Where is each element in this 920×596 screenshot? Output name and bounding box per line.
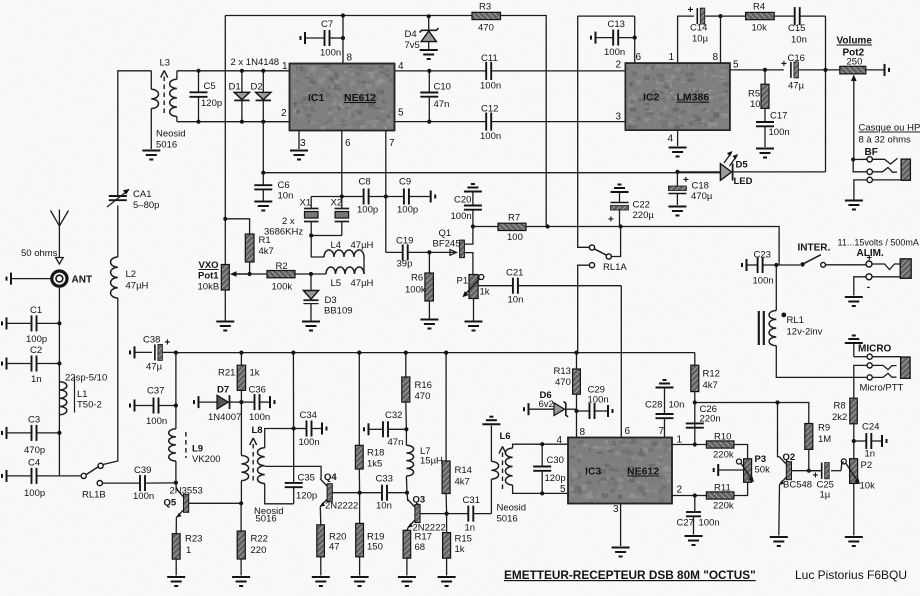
label C25 bbox=[817, 480, 834, 491]
node D6/C29/pin8 bbox=[574, 409, 578, 413]
IC1 pin 7 bbox=[389, 138, 395, 149]
wire pin6 stub bbox=[341, 131, 343, 197]
label Pot1 bbox=[198, 271, 219, 282]
IC1 pin 2 bbox=[281, 108, 287, 119]
node C3/bus bbox=[57, 431, 61, 435]
ground at P3 wiper bbox=[714, 464, 744, 476]
wire IC2 pin5 rail bbox=[730, 69, 784, 71]
jack BF bbox=[851, 157, 910, 200]
node Q4 base/R18/R19 bbox=[358, 491, 362, 495]
label L4 value bbox=[351, 240, 374, 251]
label C16 bbox=[788, 53, 805, 64]
node Q1 gate/R6 bbox=[427, 250, 431, 254]
node C32/L7 bbox=[404, 427, 408, 431]
node D1 top bbox=[240, 69, 244, 73]
capacitor C23 bbox=[742, 257, 800, 273]
label R23 value bbox=[186, 545, 191, 556]
label Pot1 value bbox=[198, 282, 220, 293]
op-amp IC2 LM386 bbox=[625, 63, 730, 130]
node C6 rail bbox=[261, 171, 265, 175]
label L1 bbox=[77, 389, 88, 400]
label C1 bbox=[30, 305, 42, 316]
transformer L3 primary bbox=[151, 71, 158, 149]
label RL1 value bbox=[787, 327, 823, 338]
node C5 top bbox=[196, 69, 200, 73]
resistor R9 bbox=[805, 424, 813, 471]
node C34/L8 bbox=[292, 426, 296, 430]
ground under pin3 bbox=[290, 151, 308, 160]
label C20 value bbox=[451, 211, 472, 222]
label R3 value bbox=[478, 23, 494, 34]
label C8 bbox=[359, 177, 371, 188]
label R5 value bbox=[750, 99, 761, 110]
label 8 a 32 ohms bbox=[859, 135, 912, 146]
node R16/rail bbox=[404, 351, 408, 355]
capacitor C31 bbox=[468, 506, 491, 522]
node C18 tap bbox=[675, 170, 679, 174]
node C13/pin6 bbox=[633, 36, 637, 40]
relay coil RL1 bbox=[759, 311, 786, 346]
potentiometer Pot1 bbox=[221, 265, 251, 291]
label C9 value bbox=[397, 205, 418, 216]
label R9 bbox=[818, 423, 830, 434]
resistor R7 bbox=[498, 223, 526, 230]
label R21 bbox=[218, 368, 235, 379]
ground under IC3 pin3 bbox=[612, 548, 630, 557]
wire Q4 base bbox=[332, 492, 381, 494]
wire L4 to L5 bbox=[363, 257, 365, 274]
wire CA1 to L3 bbox=[118, 71, 152, 190]
label R7 bbox=[508, 213, 520, 224]
label 50 ohms bbox=[21, 248, 58, 259]
label C38 value bbox=[146, 362, 163, 373]
IC2 pin 2 bbox=[616, 60, 622, 71]
label R21 value bbox=[250, 368, 260, 379]
ground under Pot1 bbox=[216, 322, 234, 331]
label R16 value bbox=[415, 391, 431, 402]
capacitor C24 bbox=[854, 433, 887, 449]
wire rail down to C37 bbox=[175, 353, 177, 429]
wire crystal rail bbox=[311, 196, 430, 198]
label C7 value bbox=[320, 48, 341, 59]
switch INTER bbox=[800, 255, 866, 267]
label R13 value bbox=[555, 377, 571, 388]
resistor R10 bbox=[706, 441, 734, 448]
label D4 bbox=[405, 29, 417, 40]
resistor R3 bbox=[472, 12, 501, 19]
potentiometer P1 bbox=[463, 274, 484, 299]
wire pin8 stub IC3 bbox=[576, 411, 578, 438]
IC2 pin 4 bbox=[668, 134, 674, 145]
label L1 turns bbox=[65, 373, 107, 384]
label L8 Neosid bbox=[254, 506, 284, 517]
node Q2 collector riser bbox=[775, 400, 779, 404]
resistor R20 bbox=[317, 525, 325, 576]
capacitor C18 polarized bbox=[668, 172, 686, 205]
inductor L7 bbox=[406, 429, 413, 492]
label RL1 bbox=[787, 315, 804, 326]
IC3 pin 2 bbox=[677, 485, 683, 496]
IC3 pin 1 bbox=[677, 435, 683, 446]
resistor R1 bbox=[245, 234, 254, 262]
node D4 rail bbox=[427, 14, 431, 18]
label C2 bbox=[30, 345, 42, 356]
label D1 bbox=[229, 82, 241, 93]
crystal X2 bbox=[335, 197, 350, 236]
ground under P2 bbox=[845, 537, 863, 546]
label C32 value bbox=[388, 437, 404, 448]
wire L8 tap to Q4 bbox=[265, 466, 321, 479]
IC2 pin 3 bbox=[616, 112, 622, 123]
node C30 bottom bbox=[540, 491, 544, 495]
ground under R22 bbox=[232, 577, 250, 586]
label C26 bbox=[700, 404, 717, 415]
capacitor C3 bbox=[2, 425, 59, 441]
label 2 x bbox=[282, 216, 295, 227]
label R16 bbox=[415, 380, 432, 391]
label ANT bbox=[72, 275, 93, 286]
wire top rail right of R3 bbox=[501, 16, 547, 227]
label C36 value bbox=[249, 412, 270, 423]
node C23/RL1 bbox=[774, 263, 778, 267]
label X2 bbox=[331, 198, 343, 209]
capacitor C1 bbox=[2, 315, 59, 331]
ground under R17 bbox=[398, 577, 416, 586]
node C38/rail bbox=[174, 351, 178, 355]
label R20 bbox=[329, 532, 346, 543]
node pin7/crystal rail bbox=[384, 194, 388, 198]
capacitor C8 bbox=[364, 186, 369, 207]
node R12/Q2 line bbox=[693, 400, 697, 404]
capacitor C17 bbox=[756, 108, 774, 147]
node pin2/C27 bbox=[693, 493, 697, 497]
transformer L6 primary bbox=[491, 426, 498, 479]
zener diode D4 bbox=[420, 16, 439, 49]
wire R11 to P3 bbox=[734, 482, 748, 495]
ground under C17 bbox=[756, 149, 774, 158]
label Q3 bbox=[413, 495, 426, 506]
label Pot2 value bbox=[847, 57, 863, 68]
label L5 bbox=[331, 278, 342, 289]
label C30 value bbox=[545, 473, 566, 484]
label C17 value bbox=[769, 127, 790, 138]
label INTER. bbox=[798, 243, 831, 254]
wire Pot1 to ground bbox=[224, 290, 226, 321]
IC3 pin 6 bbox=[625, 426, 631, 437]
label L6 5016 bbox=[497, 514, 518, 525]
label C21 bbox=[506, 268, 523, 279]
label D6 value bbox=[539, 399, 554, 410]
capacitor C33 bbox=[382, 485, 407, 501]
label L6 bbox=[500, 431, 511, 442]
label Q5 part bbox=[170, 486, 203, 497]
IC2 pin 5 bbox=[733, 60, 739, 71]
label 3686KHz bbox=[264, 227, 303, 238]
label L1 core bbox=[77, 400, 102, 411]
node Q3 base/R14/R15 bbox=[445, 511, 449, 515]
capacitor C30 bbox=[533, 444, 551, 493]
variable capacitor CA1 bbox=[107, 189, 130, 207]
label L2 bbox=[126, 269, 137, 280]
capacitor C14 polarized bbox=[697, 8, 720, 24]
label D6 bbox=[540, 390, 552, 401]
label C22 value bbox=[633, 210, 655, 221]
node C14/pin8 bbox=[718, 14, 722, 18]
label C29 value bbox=[588, 395, 609, 406]
label C33 value bbox=[376, 501, 392, 512]
label Q2 bbox=[783, 452, 796, 463]
label C38 bbox=[143, 335, 160, 346]
label R14 bbox=[455, 465, 472, 476]
node C37/L9 bbox=[174, 403, 178, 407]
capacitor C22 polarized bbox=[611, 185, 629, 227]
label C3 value bbox=[24, 445, 45, 456]
ground under C6 bbox=[254, 202, 272, 211]
wire Pot1 node to R1 bbox=[225, 219, 249, 234]
resistor R18 bbox=[355, 353, 363, 493]
node C5 bottom bbox=[196, 120, 200, 124]
capacitor C28 bbox=[656, 380, 674, 438]
wire top rail bbox=[225, 15, 472, 17]
node pin6/crystal rail bbox=[340, 194, 344, 198]
label C17 bbox=[770, 111, 787, 122]
wire RL1A lower to bottom rail bbox=[578, 265, 590, 352]
label R11 value bbox=[713, 501, 734, 512]
ground under R15 bbox=[438, 577, 456, 586]
wire Q3 base bbox=[420, 513, 468, 515]
label D5 bbox=[736, 160, 749, 171]
label Q4 bbox=[324, 472, 337, 483]
wire R12 node to pin1 rail bbox=[694, 403, 696, 445]
label R19 bbox=[367, 532, 384, 543]
label C18 bbox=[692, 181, 709, 192]
resistor R11 bbox=[706, 492, 734, 499]
label C19 value bbox=[397, 259, 413, 270]
label C25 plus bbox=[813, 471, 819, 482]
label C23 bbox=[754, 250, 771, 261]
capacitor C36 bbox=[241, 394, 274, 410]
capacitor C39 bbox=[102, 475, 175, 491]
wire R21 node to L8 bbox=[240, 402, 242, 455]
resistor R22 bbox=[237, 503, 245, 575]
label C5 bbox=[204, 81, 216, 92]
led D5 bbox=[677, 151, 825, 181]
label C28 value bbox=[669, 400, 685, 411]
ground above MICRO bbox=[845, 336, 863, 357]
wire C34 node riser bbox=[292, 353, 294, 483]
label C20 bbox=[454, 195, 471, 206]
zener diode D6 bbox=[524, 402, 577, 417]
node C10 bottom bbox=[427, 120, 431, 124]
label L8 5016 bbox=[256, 514, 277, 525]
label Volume bbox=[837, 36, 873, 47]
label C14 plus bbox=[688, 5, 694, 16]
label C32 bbox=[385, 410, 402, 421]
label D7 bbox=[217, 385, 229, 396]
label R4 value bbox=[752, 23, 768, 34]
capacitor C34 bbox=[307, 421, 327, 437]
label P2 bbox=[861, 460, 873, 471]
label LED bbox=[734, 176, 753, 187]
label R23 bbox=[185, 534, 202, 545]
crystal X1 bbox=[304, 197, 319, 236]
wire vcc to RL1A bbox=[578, 16, 590, 248]
label R5 bbox=[748, 89, 760, 100]
IC1 pin 4 bbox=[398, 61, 404, 72]
label Q3 part bbox=[413, 523, 446, 534]
wire X1 X2 bottoms bbox=[311, 235, 342, 237]
label R12 bbox=[703, 369, 720, 380]
capacitor C25 body bbox=[809, 463, 829, 479]
IC1 pin 5 bbox=[398, 108, 404, 119]
ground under D4 bbox=[420, 50, 438, 59]
node C10 top bbox=[427, 69, 431, 73]
transistor Q4 2N2222 bbox=[320, 479, 332, 507]
label Q1 bbox=[439, 228, 452, 239]
label R14 value bbox=[455, 477, 470, 488]
transistor Q3 2N2222 bbox=[407, 493, 420, 528]
transformer L8 core bbox=[250, 438, 257, 481]
label MICRO bbox=[858, 344, 892, 355]
node Q1 drain bbox=[471, 224, 475, 228]
label R12 value bbox=[703, 380, 718, 391]
wire RL1A throw to rail bbox=[611, 228, 620, 257]
wire R4 to C15 bbox=[774, 15, 794, 17]
label C18 value bbox=[691, 191, 713, 202]
capacitor C27 bbox=[686, 496, 701, 535]
node Q5 collector bbox=[174, 481, 178, 485]
ground under C27 bbox=[685, 536, 703, 545]
capacitor C4 bbox=[2, 468, 59, 484]
wire C25 left bbox=[809, 470, 822, 472]
node rail/C22 bbox=[619, 224, 623, 228]
label C38 plus bbox=[165, 338, 171, 349]
label D4 value bbox=[405, 40, 420, 51]
IC1 pin 1 bbox=[282, 61, 288, 72]
node D2 bottom bbox=[261, 120, 265, 124]
capacitor C29 bbox=[577, 403, 613, 419]
jack MICRO bbox=[854, 354, 910, 398]
label L3 bbox=[160, 58, 171, 69]
label C10 bbox=[434, 82, 451, 93]
label L6 Neosid bbox=[497, 503, 527, 514]
label C15 bbox=[788, 23, 805, 34]
ground above L6 bbox=[482, 417, 500, 425]
ground right of Pot2 bbox=[866, 64, 889, 76]
transformer L3 core bbox=[161, 71, 168, 117]
label D7 part bbox=[208, 412, 241, 423]
label C35 value bbox=[296, 491, 317, 502]
node R5 tap bbox=[763, 68, 767, 72]
wire pin7 stub bbox=[385, 131, 387, 253]
label C6 value bbox=[278, 191, 294, 202]
label C34 value bbox=[299, 437, 320, 448]
label C22 plus bbox=[608, 215, 614, 226]
label R10 bbox=[714, 432, 731, 443]
IC3 pin 7 bbox=[659, 426, 665, 437]
label R9 value bbox=[818, 434, 831, 445]
potentiometer Pot2 volume bbox=[840, 66, 866, 159]
transformer L3 secondary bbox=[170, 71, 177, 122]
title EMETTEUR-RECEPTEUR bbox=[504, 568, 756, 582]
ground under R23 bbox=[167, 577, 185, 586]
label R1 value bbox=[259, 246, 274, 257]
label Q5 bbox=[164, 498, 177, 509]
ground right of C9 bbox=[431, 191, 436, 203]
node R13/rail bbox=[574, 351, 578, 355]
wire C21 to IC3 pin6 bbox=[620, 286, 622, 438]
diode D7 1N4007 bbox=[194, 395, 241, 409]
label C11 value bbox=[480, 81, 501, 92]
label L3 Neosid bbox=[156, 129, 186, 140]
capacitor C20 bbox=[464, 184, 482, 227]
wire R7 rail left bbox=[473, 226, 498, 228]
node R1/R2 wiper bbox=[248, 272, 252, 276]
label L4 bbox=[331, 240, 342, 251]
label ALIM. bbox=[857, 248, 884, 259]
node Pot1/R1 bbox=[223, 217, 227, 221]
label C13 bbox=[608, 19, 625, 30]
label C26 value bbox=[700, 414, 721, 425]
wire L3 to IC1 pin2 bbox=[177, 121, 290, 123]
resistor R17 bbox=[403, 530, 411, 575]
node C1/bus bbox=[57, 321, 61, 325]
jack ALIM bbox=[854, 253, 911, 296]
wire C31 to L6 bbox=[490, 479, 492, 513]
IC3 pin 8 bbox=[580, 427, 586, 438]
wire IC3 pin3 stub bbox=[620, 504, 622, 547]
wire C15 down to volume rail bbox=[825, 16, 827, 172]
node C2/bus bbox=[57, 361, 61, 365]
resistor R19 bbox=[356, 493, 364, 576]
potentiometer P3 50k bbox=[737, 459, 755, 483]
label RL1A bbox=[603, 262, 627, 273]
wire pin8 riser bbox=[720, 16, 722, 63]
label R20 value bbox=[329, 542, 340, 553]
label C2 value bbox=[31, 374, 42, 385]
label C22 bbox=[633, 200, 650, 211]
node D7/C36 bbox=[239, 400, 243, 404]
wire L2 to CA1 bbox=[117, 206, 119, 258]
wire C4 node to RL1B bbox=[59, 475, 81, 477]
IC2 pin 1 bbox=[669, 52, 675, 63]
resistor R5 bbox=[761, 70, 769, 108]
label R4 bbox=[753, 2, 765, 13]
wire tx supply rail bbox=[176, 352, 695, 354]
label C24 bbox=[862, 422, 879, 433]
label R22 bbox=[251, 534, 268, 545]
label C15 value bbox=[791, 35, 807, 46]
wire RL1 to PTT line bbox=[776, 346, 867, 378]
label R18 bbox=[367, 448, 384, 459]
label P3 value bbox=[755, 465, 771, 476]
ground under R6 bbox=[420, 320, 438, 329]
ground under IC2 pin4 bbox=[669, 148, 687, 157]
label C13 value bbox=[604, 47, 625, 58]
wire pin3 stub bbox=[298, 131, 300, 150]
label R2 value bbox=[272, 282, 293, 293]
wire C23 node to RL1 bbox=[775, 265, 777, 311]
node R9/C25/Q2 base bbox=[807, 469, 811, 473]
label C35 bbox=[298, 473, 315, 484]
IC3 pin 4 bbox=[557, 435, 563, 446]
resistor R16 bbox=[402, 353, 410, 430]
potentiometer P2 bbox=[841, 459, 860, 485]
label C5 value bbox=[201, 98, 222, 109]
label X1 bbox=[300, 198, 312, 209]
label C11 bbox=[481, 53, 498, 64]
label R1 bbox=[259, 235, 271, 246]
